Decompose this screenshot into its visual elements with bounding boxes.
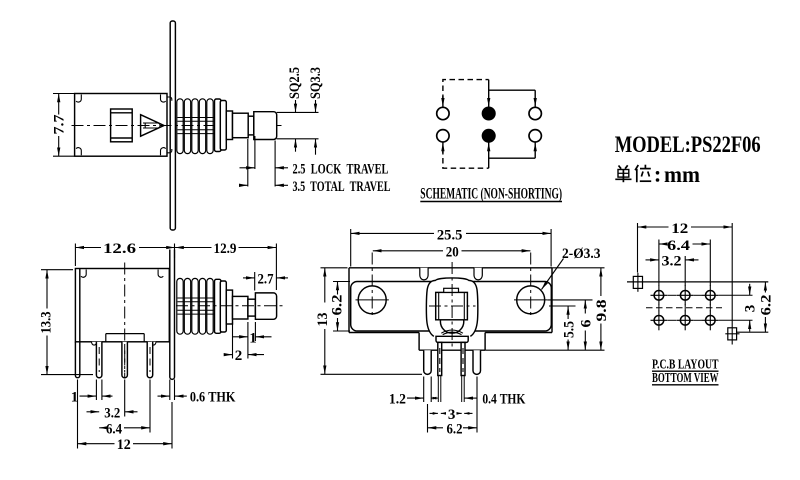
hole centerline left [371,253,373,319]
schematic pin 5 common (filled) [483,130,495,142]
retaining collar washers (front view) [215,279,227,333]
terminal leg 3 [147,342,153,378]
middle dash-dot line [646,307,722,309]
dimension 9.8 (right) [485,268,604,350]
dimension 2.7 [243,272,288,291]
dimension 7.7 [53,94,74,157]
dimension 6.2 (left) [333,282,350,332]
body-plate junction tabs [167,97,172,153]
dimension 3 (pin pitch) [430,412,473,414]
unit label: CJK dan (single) [615,165,631,182]
body corner relief hooks [76,95,166,156]
svg-text:20: 20 [446,244,459,260]
dimension 6.2 (bracket legs) [428,377,478,433]
bracket leg right [473,350,481,374]
pin thin tip left [438,376,441,403]
switch pin left (front) [438,342,442,375]
bracket leg left [424,350,432,374]
dimension 20 [373,250,531,252]
dimension 12 (pcb) [638,223,733,273]
svg-text:6.2: 6.2 [447,421,463,437]
actuator cap top step [444,288,459,292]
body left wall inner line and bracket leg [75,269,79,378]
pad hole A3 [702,285,719,305]
pcb slot right [725,328,739,340]
vertical centerline (front view) [124,263,126,379]
dimension 6 (right) [547,300,592,350]
body outline (front) [75,269,169,342]
svg-text:2.5 LOCK TRAVEL: 2.5 LOCK TRAVEL [293,162,389,178]
dimension 3.5 TOTAL TRAVEL [240,184,289,186]
plunger knob [254,112,277,140]
svg-text:12: 12 [117,437,131,453]
shaft neck (front view) [248,299,256,316]
mounting plate (edge-on, vertical strip) [170,21,175,230]
terminal leg 1 [96,342,102,378]
svg-text:5.5: 5.5 [561,321,577,338]
centerline (front view shaft) [176,305,285,307]
svg-text:MODEL:PS22F06: MODEL:PS22F06 [615,132,761,157]
mounting hole left [356,286,389,314]
switch pin right (front) [461,342,465,375]
body corner relief hooks (front) [81,270,163,278]
svg-text:3: 3 [742,305,758,313]
dimension 6.4 (outer legs) [99,380,150,433]
schematic movable contact link (bottom solid) [489,143,536,169]
mid shaft (front view) [233,296,248,319]
pad row centerlines dashes [668,295,753,320]
schematic dashed mechanical link (bottom) [443,149,489,168]
actuator housing [426,278,477,336]
svg-text:BOTTOM VIEW: BOTTOM VIEW [652,371,719,386]
svg-text:25.5: 25.5 [437,227,463,243]
svg-text:7.7: 7.7 [52,114,68,135]
pcb bracket reference line [627,281,768,283]
svg-text:0.4 THK: 0.4 THK [482,392,525,408]
svg-text:2-Ø3.3: 2-Ø3.3 [562,246,601,262]
svg-text:6.2: 6.2 [759,295,775,316]
spring coils [177,99,213,154]
svg-text:mm: mm [664,162,700,187]
latch cam triangle [141,115,164,137]
terminal leg 2 [122,342,128,378]
schematic arrow into pin 4 [442,143,444,154]
svg-text:3.2: 3.2 [104,405,120,421]
svg-text:SCHEMATIC (NON-SHORTING): SCHEMATIC (NON-SHORTING) [420,186,562,203]
svg-text:3.5 TOTAL TRAVEL: 3.5 TOTAL TRAVEL [293,179,391,195]
shaft step block [226,111,232,140]
svg-text:3.2: 3.2 [662,253,682,269]
top edge notch right [474,268,482,280]
schematic dashed mechanical link (top) [443,80,489,100]
svg-text:SQ2.5: SQ2.5 [287,67,303,99]
dimension 0.6 THK (plate thickness) [158,380,187,401]
shaft core through spring (front view) [178,298,233,314]
svg-text:12: 12 [671,221,688,237]
schematic pin 2 common (filled) [483,107,495,119]
svg-text:6: 6 [579,319,595,328]
svg-text:1: 1 [249,330,256,346]
pad hole A2 [677,285,694,305]
svg-text:12.9: 12.9 [214,241,237,257]
dimension 3 (pcb rows) [749,284,751,332]
dimension 1.2 (bracket leg) [407,377,438,403]
middle line ticks [659,304,710,311]
dimension 13.3 [41,270,93,375]
svg-text:6.2: 6.2 [330,295,346,316]
schematic arrow into pin 1 [442,96,444,107]
dimension SQ2.5 [295,100,297,152]
dimension 3.2 (leg pitch) [87,380,138,417]
dimension 12.6 [75,244,175,267]
bracket embossed face (rounded rect) [351,282,552,332]
svg-text:12.6: 12.6 [103,241,137,257]
schematic pin 6 (open) [529,130,541,142]
svg-text:6.4: 6.4 [106,421,122,437]
dimension 2-O3.3 hole callout [542,259,564,290]
shaft step block (front view) [226,290,232,324]
body window [111,109,133,142]
dimension 1 (leg width) [80,380,113,401]
shaft neck [248,116,254,135]
centerline (side view) [72,125,284,127]
pad hole B1 [651,310,668,330]
dimension 12 (body to plate) [78,380,173,449]
svg-text:1.2: 1.2 [389,392,406,408]
schematic pin 1 (open) [437,107,449,119]
pin thin tip right [462,376,465,403]
bracket plate outline [349,268,552,333]
svg-text:0.6 THK: 0.6 THK [190,390,236,406]
mounting hole right [514,286,547,314]
svg-text:13.3: 13.3 [39,312,55,334]
actuator centerline horizontal [429,305,476,307]
dimension 0.4 THK (pin thickness) [464,397,477,399]
actuator cap (square end-on) [436,292,468,319]
dimension 25.5 [351,229,551,267]
schematic pin 3 (open) [529,107,541,119]
schematic pin 4 (open) [437,130,449,142]
hole centerline right [530,253,532,319]
mounting plate (front view, edge-on) [170,250,175,380]
retaining collar washers [215,99,227,152]
central tab and shelf [419,333,485,351]
body bottom step [106,334,144,342]
svg-text:SQ3.3: SQ3.3 [308,67,324,99]
dimension 6.2 (pcb) [737,282,769,332]
pad hole A1 [651,285,668,305]
spring coils (front view) [177,278,213,334]
dimension 2.5 LOCK TRAVEL [240,167,289,169]
shaft core through spring (hatch lines) [178,118,233,134]
pcb long vertical line through right slot [731,223,733,345]
schematic movable contact link (top solid) [489,80,536,107]
fullwidth colon [656,171,660,182]
svg-text:6.4: 6.4 [667,238,691,254]
shaft circle (end-on) [440,310,463,335]
svg-text:2: 2 [235,348,243,364]
plunger knob (front view) [255,293,276,319]
dimension SQ3.3 [315,100,317,155]
svg-text:2.7: 2.7 [258,271,274,287]
svg-text:9.8: 9.8 [594,300,610,322]
plunger square extension lines [277,112,319,138]
travel extension lines [248,136,275,187]
top edge notch left [420,268,428,280]
dimension 3.2 (pcb) [646,256,699,286]
unit label: CJK wei (position) [635,165,651,183]
bottom edge notches [91,342,156,345]
pad hole B2 [677,310,694,330]
pad hole B3 [702,310,719,330]
switch body outline [75,94,167,157]
dimension 1 (neck length) [233,322,272,359]
dimension 5.5 (right) [549,306,576,350]
dimension 12.9 [175,244,276,291]
actuator centerline vertical [451,262,453,350]
mid shaft [233,113,249,138]
dimension 6.4 (pcb) [659,240,710,287]
dimension 13 (left) [321,268,423,375]
pcb slot left [633,273,642,292]
dimension 2 (shaft length) [224,354,264,356]
collar seat [436,336,468,342]
